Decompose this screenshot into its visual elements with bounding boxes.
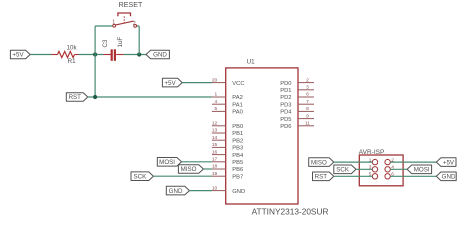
wire MOSI flag to U1 pin 17 — [182, 161, 212, 163]
svg-text:11: 11 — [305, 121, 310, 127]
svg-text:20: 20 — [212, 77, 218, 83]
U1 pin 7 (PD3) — [280, 99, 314, 109]
svg-text:GND: GND — [153, 52, 167, 59]
connector pad pin 2 — [385, 157, 394, 165]
switch S1 RESET pushbutton — [113, 13, 137, 27]
svg-text:PB1: PB1 — [232, 131, 243, 137]
ground flag GND (ISP side) — [436, 172, 456, 181]
svg-text:9: 9 — [306, 113, 309, 119]
svg-text:PD5: PD5 — [280, 117, 291, 123]
svg-text:+5V: +5V — [12, 52, 24, 59]
svg-text:7: 7 — [306, 99, 309, 105]
svg-text:4: 4 — [215, 99, 218, 105]
name label U1 — [247, 58, 256, 65]
svg-text:PA1: PA1 — [232, 102, 243, 108]
svg-text:14: 14 — [212, 135, 218, 141]
U1 pin 10 (GND) — [212, 185, 245, 195]
label RESET — [119, 1, 143, 9]
switch pin number 1 — [112, 20, 115, 26]
name label R1 — [68, 58, 76, 65]
wire RST flag to U1 pin 1 — [88, 96, 212, 98]
resistor R1 10k — [52, 51, 79, 57]
capacitor C3 1uF — [104, 49, 124, 61]
wire ISP pin 4 to MOSI flag — [390, 168, 407, 170]
wire ISP pin 6 to GND flag — [390, 175, 436, 177]
svg-text:17: 17 — [212, 157, 218, 163]
value label 10k — [67, 44, 78, 51]
svg-text:PB5: PB5 — [232, 160, 243, 166]
svg-text:PB6: PB6 — [232, 167, 243, 173]
U1 pin 2 (PD0) — [280, 77, 314, 87]
svg-text:GND: GND — [442, 174, 456, 181]
svg-text:ATTINY2313-20SUR: ATTINY2313-20SUR — [252, 207, 329, 217]
svg-text:PD2: PD2 — [280, 95, 291, 101]
svg-text:VCC: VCC — [232, 81, 244, 87]
svg-text:R1: R1 — [68, 58, 76, 65]
net flag MOSI (U1 side) — [157, 158, 181, 167]
supply flag +5V (input rail) — [10, 50, 30, 59]
svg-text:U1: U1 — [247, 58, 256, 65]
svg-text:13: 13 — [212, 128, 218, 134]
wire GND flag to U1 pin 10 — [189, 190, 212, 192]
U1 pin 15 (PB3) — [212, 142, 243, 152]
net flag SCK (ISP side) — [334, 165, 356, 174]
name label C3 (rotated) — [102, 39, 109, 47]
net flag +5V (U1 VCC) — [162, 78, 182, 87]
junction node RST net (R1/C3/switch) — [93, 52, 97, 56]
U1 pin 5 (PA0) — [212, 106, 243, 116]
wire SCK flag to ISP pin 3 — [356, 168, 372, 170]
IC U1 body outline — [226, 68, 298, 204]
connector pad pin 1 — [369, 157, 378, 165]
svg-text:PA2: PA2 — [232, 95, 243, 101]
U1 pin 18 (PB6) — [212, 164, 243, 174]
U1 pin 6 (PD2) — [280, 92, 314, 102]
U1 pin 4 (PA1) — [212, 99, 243, 109]
junction node GND net (C3/switch/GND) — [137, 52, 141, 56]
wire +5V flag to R1 — [30, 54, 51, 56]
connector pad pin 4 — [385, 165, 394, 173]
svg-text:6: 6 — [306, 92, 309, 98]
wire MISO flag to U1 pin 18 — [203, 168, 212, 170]
ground flag GND (U1 side) — [166, 186, 189, 195]
svg-text:GND: GND — [232, 189, 245, 195]
ground flag GND (top rail) — [146, 50, 169, 59]
supply flag +5V (ISP side) — [436, 158, 456, 167]
wire right leg down to C3 node — [138, 26, 140, 55]
svg-text:8: 8 — [306, 106, 309, 112]
wire R1 to C3 node — [79, 54, 104, 56]
wire SCK flag to U1 pin 19 — [153, 175, 212, 177]
svg-text:2: 2 — [133, 21, 136, 27]
svg-text:1: 1 — [112, 20, 115, 26]
connector JP1 AVR-ISP outline — [359, 155, 403, 186]
svg-text:16: 16 — [212, 149, 218, 155]
svg-text:PD1: PD1 — [280, 88, 291, 94]
svg-text:1: 1 — [215, 92, 218, 98]
svg-text:RST: RST — [315, 174, 328, 181]
label AVR-ISP — [359, 149, 385, 156]
svg-text:18: 18 — [212, 164, 218, 170]
net flag MISO (ISP side) — [309, 158, 334, 167]
wire MISO flag to ISP pin 1 — [334, 161, 373, 163]
svg-text:+5V: +5V — [164, 80, 176, 87]
net flag RST (ISP side) — [313, 172, 334, 181]
wire RST flag to ISP pin 5 — [334, 175, 373, 177]
svg-text:PA0: PA0 — [232, 110, 243, 116]
U1 pin 9 (PD5) — [280, 113, 314, 123]
U1 pin 8 (PD4) — [280, 106, 314, 116]
svg-text:2: 2 — [306, 77, 309, 83]
svg-text:PB4: PB4 — [232, 153, 244, 159]
wire top-left to switch pin 1 — [95, 25, 113, 27]
svg-text:PB2: PB2 — [232, 138, 243, 144]
svg-text:RST: RST — [69, 94, 82, 101]
svg-text:PD4: PD4 — [280, 110, 292, 116]
svg-text:12: 12 — [212, 121, 218, 127]
value label ATTINY2313-20SUR — [252, 207, 329, 217]
connector pad pin 3 — [369, 165, 378, 173]
svg-text:C3: C3 — [102, 39, 109, 47]
switch pin number 2 — [133, 21, 136, 27]
U1 pin 3 (PD1) — [280, 85, 314, 95]
svg-text:PB3: PB3 — [232, 146, 243, 152]
wire +5V flag to U1 pin 20 — [182, 82, 212, 84]
net flag MOSI (ISP side) — [407, 165, 432, 174]
wire ISP pin 2 to +5V flag — [390, 161, 436, 163]
svg-text:3: 3 — [306, 85, 309, 91]
connector pad pin 6 — [385, 172, 394, 180]
net flag SCK (U1 side) — [131, 172, 153, 181]
svg-text:15: 15 — [212, 142, 218, 148]
value label 1uF (rotated) — [117, 37, 124, 48]
U1 pin 16 (PB4) — [212, 149, 244, 159]
svg-text:10: 10 — [212, 185, 218, 191]
net flag RST — [66, 93, 88, 102]
wire switch pin 2 to right leg — [137, 25, 140, 27]
svg-text:MISO: MISO — [181, 166, 197, 173]
U1 pin 11 (PD6) — [280, 121, 314, 131]
U1 pin 17 (PB5) — [212, 157, 243, 167]
svg-text:5: 5 — [215, 106, 218, 112]
U1 pin 20 (VCC) — [212, 77, 245, 87]
U1 pin 14 (PB2) — [212, 135, 243, 145]
U1 pin 19 (PB7) — [212, 171, 243, 181]
svg-text:PD3: PD3 — [280, 102, 291, 108]
U1 pin 1 (PA2) — [212, 92, 243, 102]
wire junction up-left leg of switch — [94, 26, 96, 55]
connector pad pin 5 — [369, 172, 378, 180]
svg-text:GND: GND — [169, 188, 183, 195]
svg-text:+5V: +5V — [443, 159, 455, 166]
svg-text:SCK: SCK — [336, 167, 350, 174]
wire RST node down to RST row — [94, 55, 96, 98]
U1 pin 12 (PB0) — [212, 121, 243, 131]
svg-text:PB7: PB7 — [232, 174, 243, 180]
svg-text:PB0: PB0 — [232, 124, 243, 130]
net flag MISO (U1 side) — [178, 165, 203, 174]
U1 pin 13 (PB1) — [212, 128, 243, 138]
svg-text:MOSI: MOSI — [159, 159, 175, 166]
junction node RST vertical join — [93, 95, 97, 99]
svg-text:PD6: PD6 — [280, 124, 291, 130]
svg-text:RESET: RESET — [119, 1, 143, 9]
svg-text:10k: 10k — [67, 44, 78, 51]
svg-text:19: 19 — [212, 171, 218, 177]
svg-text:MISO: MISO — [311, 159, 327, 166]
svg-text:1uF: 1uF — [117, 37, 124, 48]
wire C3 to GND flag — [124, 54, 146, 56]
svg-text:SCK: SCK — [134, 173, 148, 180]
svg-text:MOSI: MOSI — [414, 167, 430, 174]
svg-text:PD0: PD0 — [280, 81, 291, 87]
